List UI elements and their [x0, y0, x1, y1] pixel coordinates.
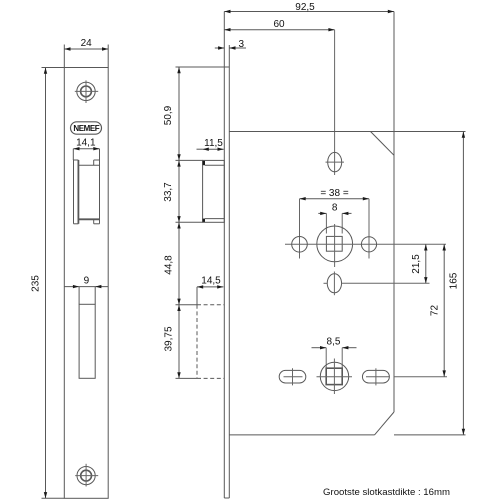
left round hole	[292, 237, 308, 253]
svg-text:60: 60	[273, 19, 285, 30]
witness 14,5 left	[196, 287, 198, 305]
case bottom witness to 165	[394, 434, 466, 436]
bottom screw hole	[77, 467, 95, 485]
right round hole	[361, 237, 376, 252]
cylinder hole circle	[320, 362, 348, 390]
horizontal centerline through follower	[285, 243, 446, 245]
case top-right chamfer	[371, 132, 395, 156]
latch front: main body	[78, 164, 99, 166]
svg-text:44,8: 44,8	[164, 255, 175, 275]
witness 8	[325, 213, 327, 233]
cylinder square hole	[326, 368, 342, 384]
dimension line 50,9	[178, 67, 180, 160]
faceplate side view left edge / 92.5 witness	[223, 12, 225, 499]
dimension line =38=	[300, 198, 370, 200]
faceplate side view top cap	[224, 66, 229, 68]
right stadium hole	[362, 370, 389, 383]
left stadium hole	[279, 370, 306, 383]
dimension line 8,5	[312, 347, 327, 349]
lower oval hole	[327, 274, 341, 293]
faceplate front view outline	[64, 68, 108, 499]
latch front: left strip	[73, 160, 75, 224]
dimension line 11,5	[203, 148, 224, 150]
dimension line 235	[45, 68, 47, 499]
dimension line 14,5	[197, 286, 223, 288]
dimension line 21,5	[425, 244, 427, 283]
dimension line 8	[318, 212, 326, 214]
svg-text:11,5: 11,5	[204, 138, 223, 149]
svg-text:9: 9	[84, 275, 90, 286]
svg-text:3: 3	[239, 39, 245, 50]
deadbolt side view dashed top	[197, 304, 224, 306]
faceplate side view bottom cap	[224, 497, 229, 499]
witness 38 left through hole	[299, 199, 301, 259]
dimension 24 witness lines	[63, 45, 65, 68]
witness top 50,9	[176, 66, 225, 68]
case bottom-right chamfer	[375, 412, 395, 435]
follower hole circle	[317, 226, 353, 262]
faceplate side view right edge	[228, 45, 230, 498]
top screw hole	[77, 82, 95, 100]
dimension line 9	[64, 286, 108, 288]
witness 50,9 bottom	[176, 159, 203, 161]
witness lines 14,1	[72, 149, 74, 160]
svg-text:92,5: 92,5	[295, 2, 315, 13]
dimension line 92,5	[224, 11, 394, 13]
svg-text:165: 165	[448, 272, 459, 289]
NEMEF logo oval	[71, 122, 102, 134]
dimension line 14,1	[73, 148, 99, 150]
svg-text:NEMEF: NEMEF	[73, 124, 99, 133]
dimension line 72	[443, 244, 445, 376]
latch side filled bevel bottom	[203, 219, 205, 222]
case right edge / 92.5 witness	[393, 12, 395, 413]
svg-text:72: 72	[430, 305, 441, 317]
witness 33,7 bottom	[176, 221, 203, 223]
svg-text:14,1: 14,1	[76, 138, 96, 149]
svg-text:24: 24	[81, 38, 93, 49]
deadbolt side view dashed left	[196, 305, 198, 379]
centerline segment through cylinder	[317, 376, 353, 378]
witness 39,75 top	[176, 304, 198, 306]
witness 39,75 bottom	[176, 377, 198, 379]
svg-text:Grootste slotkastdikte : 16mm: Grootste slotkastdikte : 16mm	[323, 487, 450, 498]
svg-text:14,5: 14,5	[201, 275, 221, 286]
dimension line 44,8	[178, 222, 180, 304]
case top edge with 165 witness	[229, 131, 465, 133]
svg-text:= 38 =: = 38 =	[320, 188, 349, 199]
latch side view box	[203, 160, 225, 222]
svg-text:50,9: 50,9	[163, 105, 174, 125]
svg-text:21,5: 21,5	[411, 254, 422, 274]
svg-text:235: 235	[30, 275, 41, 292]
dimension line 165	[462, 132, 464, 435]
upper oval hole	[328, 152, 342, 171]
deadbolt side view dashed bottom	[197, 377, 224, 379]
latch side inner lines	[205, 164, 225, 166]
deadbolt cutout rectangle	[79, 304, 95, 378]
latch front: top tab	[93, 160, 95, 165]
svg-text:8: 8	[332, 202, 338, 213]
follower square hole	[326, 236, 342, 251]
centerline segment right stadium	[366, 376, 389, 378]
svg-text:33,7: 33,7	[163, 182, 174, 202]
centerline segment in left stadium	[284, 376, 303, 378]
witness 60 down to upper oval	[334, 30, 336, 175]
follower vertical centerline	[334, 224, 336, 267]
cylinder vertical centerline	[333, 359, 335, 395]
witness lines 9	[78, 287, 80, 305]
witness 8,5	[325, 348, 327, 368]
latch front: bottom tab	[93, 219, 95, 224]
dimension line 24	[64, 48, 108, 50]
svg-text:8,5: 8,5	[327, 337, 341, 348]
dimension 3 arrows	[215, 47, 225, 49]
case bottom edge	[229, 434, 374, 436]
svg-text:39,75: 39,75	[164, 326, 175, 351]
latch side filled bevel top	[203, 161, 205, 165]
witness 38 right through hole	[368, 199, 370, 259]
dimension line 33,7	[178, 160, 180, 222]
centerline witness to 72 dim	[394, 376, 447, 378]
dimension line 39,75	[178, 305, 180, 379]
dimension 235 witness lines	[42, 67, 65, 69]
dimension line 60	[224, 29, 334, 31]
centerline lower oval to 21,5 dim	[324, 282, 328, 284]
